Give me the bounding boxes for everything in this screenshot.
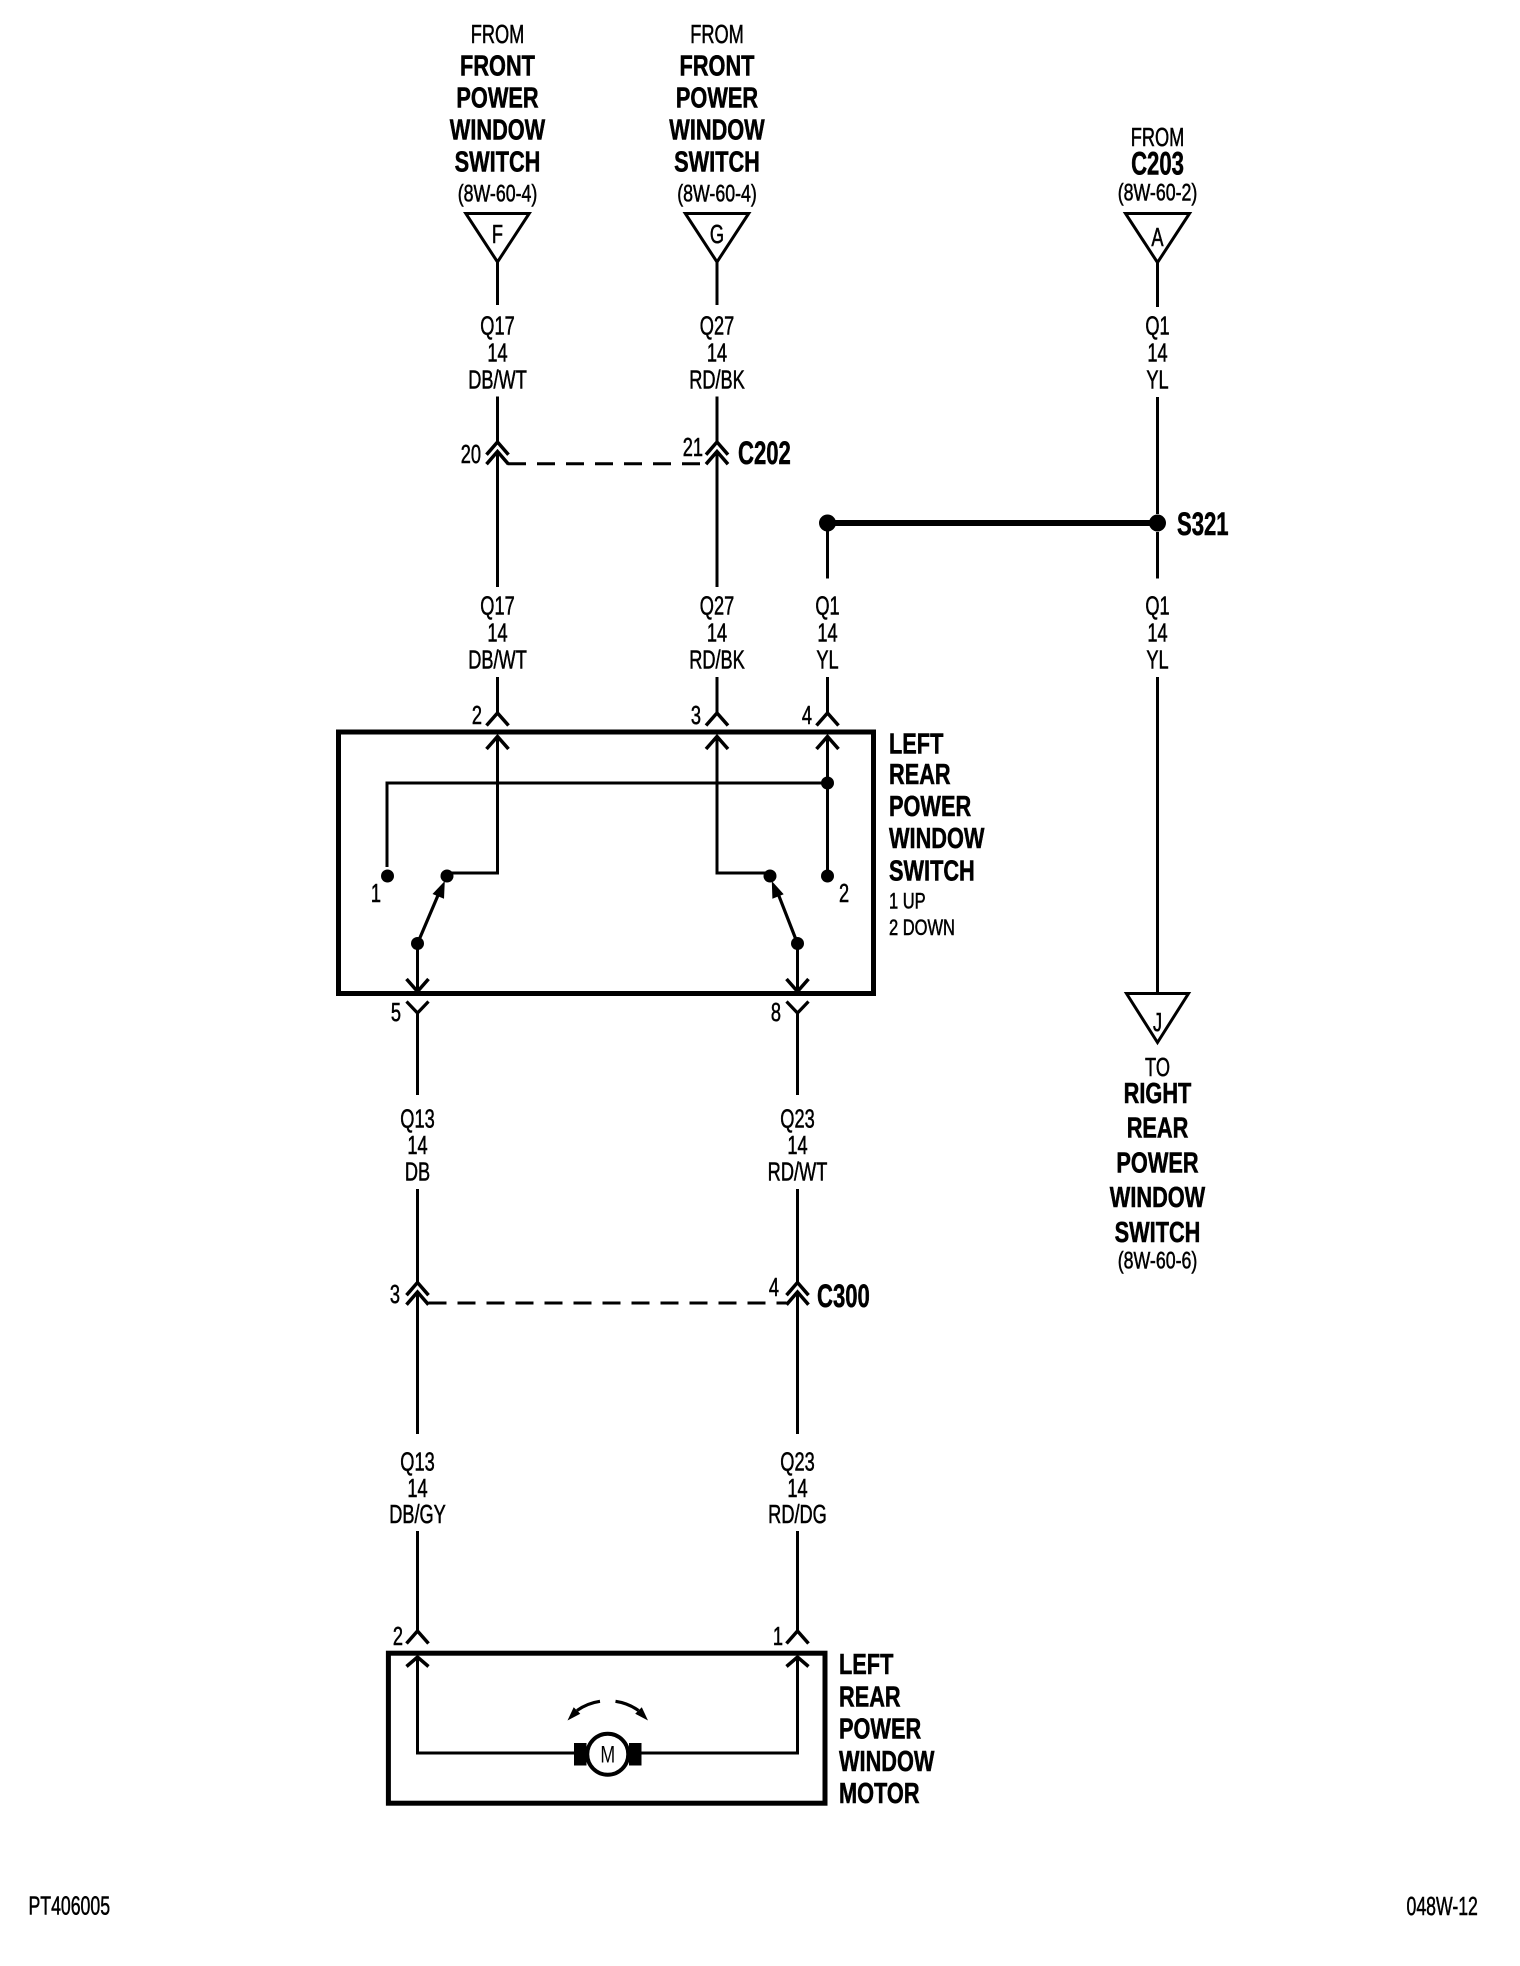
arrowhead at box bottom (pin 5 inside) bbox=[407, 979, 429, 992]
svg-text:J: J bbox=[1153, 1008, 1162, 1037]
svg-text:14: 14 bbox=[487, 338, 507, 367]
svg-text:SWITCH: SWITCH bbox=[455, 147, 541, 179]
wire label Q1 14 YL (upper right) bbox=[1145, 311, 1169, 394]
connector C300 pin 3 (in-line chevrons) bbox=[390, 1280, 429, 1309]
svg-text:WINDOW: WINDOW bbox=[1110, 1182, 1206, 1214]
svg-text:14: 14 bbox=[787, 1131, 807, 1160]
motor rotation arrow right bbox=[616, 1701, 649, 1720]
svg-text:M: M bbox=[600, 1742, 615, 1768]
switch pin 4 terminal bbox=[802, 701, 839, 749]
svg-text:8: 8 bbox=[771, 998, 781, 1027]
wire: to motor pin 2 bbox=[416, 1531, 419, 1631]
svg-text:DB/WT: DB/WT bbox=[468, 645, 527, 674]
svg-text:14: 14 bbox=[407, 1474, 427, 1503]
svg-text:2: 2 bbox=[839, 879, 849, 908]
svg-text:Q23: Q23 bbox=[780, 1104, 814, 1133]
svg-text:PT406005: PT406005 bbox=[29, 1891, 111, 1920]
connector C300 dashed gang line and label bbox=[429, 1278, 870, 1314]
svg-text:5: 5 bbox=[391, 998, 401, 1027]
svg-text:048W-12: 048W-12 bbox=[1407, 1892, 1478, 1921]
svg-text:RD/WT: RD/WT bbox=[768, 1157, 828, 1186]
svg-text:C203: C203 bbox=[1131, 145, 1184, 181]
svg-text:DB/WT: DB/WT bbox=[468, 365, 527, 394]
wire label Q17 14 DB/WT (upper) bbox=[468, 311, 527, 394]
svg-text:POWER: POWER bbox=[839, 1714, 921, 1746]
svg-text:(8W-60-4): (8W-60-4) bbox=[458, 181, 538, 207]
svg-text:Q1: Q1 bbox=[815, 591, 839, 620]
svg-text:POWER: POWER bbox=[1116, 1148, 1198, 1180]
svg-text:Q13: Q13 bbox=[400, 1104, 434, 1133]
motor pin 2 terminal bbox=[393, 1622, 429, 1667]
svg-text:SWITCH: SWITCH bbox=[889, 855, 975, 887]
svg-text:2: 2 bbox=[393, 1622, 403, 1651]
wire: pin 4 into switch bbox=[826, 737, 829, 874]
wire: G triangle to Q27 label bbox=[716, 262, 719, 305]
wire label Q13 14 DB bbox=[400, 1104, 434, 1186]
wire: F triangle to Q17 label bbox=[496, 262, 499, 305]
svg-text:14: 14 bbox=[787, 1474, 807, 1503]
svg-text:1: 1 bbox=[371, 879, 381, 908]
wire: to C300 pin 4 bbox=[796, 1189, 799, 1282]
connector C202 pin 21 (in-line chevrons) bbox=[683, 433, 728, 464]
svg-text:RD/BK: RD/BK bbox=[689, 365, 745, 394]
svg-text:14: 14 bbox=[407, 1131, 427, 1160]
svg-text:POWER: POWER bbox=[676, 83, 758, 115]
svg-text:FROM: FROM bbox=[690, 20, 744, 49]
svg-text:G: G bbox=[710, 220, 724, 249]
svg-text:DB/GY: DB/GY bbox=[389, 1500, 446, 1529]
wire: S321 to Q1 label (lower) bbox=[1156, 532, 1159, 579]
switch pin 5 terminal (Y) and label bbox=[391, 998, 429, 1027]
connector C202 dashed gang line and label bbox=[508, 435, 791, 471]
motor M1 (left rear power window motor) bbox=[574, 1734, 642, 1775]
svg-text:2 DOWN: 2 DOWN bbox=[889, 916, 955, 941]
svg-text:14: 14 bbox=[707, 618, 727, 647]
footer sheet code PT406005 bbox=[29, 1891, 111, 1920]
svg-text:F: F bbox=[492, 220, 503, 249]
switch arm right (pole 8) with arrow bbox=[772, 881, 804, 950]
svg-text:LEFT: LEFT bbox=[839, 1649, 894, 1681]
svg-text:FRONT: FRONT bbox=[680, 51, 755, 83]
wire: Q27 label to C202 pin 21 bbox=[716, 397, 719, 443]
node label: FROM FRONT POWER WINDOW SWITCH (8W-60-4) (right) bbox=[669, 20, 765, 207]
node label: TO RIGHT REAR POWER WINDOW SWITCH (8W-60-6) bbox=[1110, 1053, 1206, 1274]
left rear power window motor box bbox=[388, 1653, 825, 1803]
switch pin 2 terminal bbox=[472, 701, 509, 749]
wire: motor pin 1 lead bbox=[642, 1657, 798, 1753]
svg-text:14: 14 bbox=[1147, 618, 1167, 647]
svg-text:21: 21 bbox=[683, 433, 703, 462]
connector C300 pin 4 (in-line chevrons) bbox=[769, 1273, 809, 1305]
svg-text:Q27: Q27 bbox=[700, 591, 734, 620]
wire: pin 2 into switch (down then left) bbox=[447, 737, 498, 874]
svg-text:Q13: Q13 bbox=[400, 1447, 434, 1476]
svg-text:20: 20 bbox=[461, 440, 481, 469]
motor rotation arrow left bbox=[568, 1701, 601, 1720]
svg-text:C300: C300 bbox=[817, 1278, 870, 1314]
switch arm left (pole 5) with arrow bbox=[411, 881, 445, 950]
wire: C300 pin 4 down bbox=[796, 1293, 799, 1434]
connector C202 pin 20 (in-line chevrons) bbox=[461, 440, 509, 469]
splice bus wire S321 bbox=[828, 520, 1158, 526]
wire: to switch pin 3 bbox=[716, 677, 719, 713]
svg-text:POWER: POWER bbox=[889, 791, 971, 823]
wire label Q13 14 DB/GY bbox=[389, 1447, 446, 1528]
svg-text:RIGHT: RIGHT bbox=[1124, 1078, 1192, 1110]
wire: Q1 label to splice S321 bbox=[1156, 397, 1159, 514]
component label: LEFT REAR POWER WINDOW SWITCH / 1 UP 2 DOWN bbox=[889, 728, 985, 940]
wire: to motor pin 1 bbox=[796, 1531, 799, 1631]
wire: C300 pin 3 down bbox=[416, 1293, 419, 1434]
svg-text:WINDOW: WINDOW bbox=[889, 823, 985, 855]
splice S321 left junction dot bbox=[819, 515, 836, 532]
component label: LEFT REAR POWER WINDOW MOTOR bbox=[839, 1649, 935, 1810]
svg-text:Q17: Q17 bbox=[480, 591, 514, 620]
wire label Q27 14 RD/BK (upper) bbox=[689, 311, 745, 394]
svg-text:A: A bbox=[1151, 223, 1163, 252]
connector A (off-page triangle) bbox=[1126, 214, 1190, 263]
connector J (off-page triangle) bbox=[1127, 994, 1189, 1043]
svg-text:14: 14 bbox=[817, 618, 837, 647]
svg-text:C202: C202 bbox=[738, 435, 791, 471]
svg-text:REAR: REAR bbox=[889, 759, 951, 791]
wire: pin 5 down bbox=[416, 1013, 419, 1095]
switch contact dot (up contact, left) bbox=[441, 870, 454, 883]
svg-text:(8W-60-4): (8W-60-4) bbox=[677, 181, 757, 207]
junction dot on pin 4 branch bbox=[821, 777, 834, 790]
wire: pin 3 into switch (down then right) bbox=[717, 737, 770, 874]
wire: to switch pin 4 bbox=[826, 677, 829, 713]
switch contact dot 1 and label bbox=[371, 870, 394, 908]
svg-text:YL: YL bbox=[1146, 365, 1168, 394]
wire: left pole down to box edge bbox=[416, 944, 419, 991]
connector G (off-page triangle) bbox=[685, 214, 748, 263]
svg-text:REAR: REAR bbox=[839, 1681, 901, 1713]
svg-text:YL: YL bbox=[816, 645, 838, 674]
footer sheet code 048W-12 bbox=[1407, 1892, 1478, 1921]
svg-text:Q23: Q23 bbox=[780, 1447, 814, 1476]
wire: down to connector J bbox=[1156, 677, 1159, 994]
node label: FROM C203 (8W-60-2) bbox=[1118, 123, 1198, 206]
svg-text:FROM: FROM bbox=[471, 20, 525, 49]
wire: pin 8 down bbox=[796, 1013, 799, 1095]
node label: FROM FRONT POWER WINDOW SWITCH (8W-60-4) (left) bbox=[450, 20, 546, 207]
svg-text:(8W-60-2): (8W-60-2) bbox=[1118, 180, 1198, 206]
wire: right pole down to box edge bbox=[796, 944, 799, 991]
switch contact dot 2 and label bbox=[821, 870, 849, 908]
wire label Q1 14 YL (lower right) bbox=[1145, 591, 1169, 674]
svg-text:FRONT: FRONT bbox=[460, 51, 535, 83]
svg-text:3: 3 bbox=[390, 1280, 400, 1309]
wire: splice to Q1 label bbox=[826, 531, 829, 579]
wire label Q1 14 YL (branch) bbox=[815, 591, 839, 674]
wire label Q23 14 RD/DG bbox=[768, 1447, 827, 1528]
switch contact dot (up contact, right) bbox=[764, 870, 777, 883]
wire: C202 pin 20 down bbox=[496, 453, 499, 587]
wire: internal bus from node 1 to pin 4 branch bbox=[387, 783, 828, 867]
wire: to switch pin 2 bbox=[496, 677, 499, 713]
svg-text:2: 2 bbox=[472, 701, 482, 730]
svg-text:SWITCH: SWITCH bbox=[1115, 1217, 1201, 1249]
svg-text:REAR: REAR bbox=[1127, 1113, 1189, 1145]
svg-text:(8W-60-6): (8W-60-6) bbox=[1118, 1248, 1198, 1274]
svg-text:4: 4 bbox=[802, 701, 812, 730]
svg-text:YL: YL bbox=[1146, 645, 1168, 674]
svg-text:14: 14 bbox=[1147, 338, 1167, 367]
svg-text:WINDOW: WINDOW bbox=[839, 1746, 935, 1778]
wire: motor pin 2 lead bbox=[418, 1657, 575, 1753]
wire: Q17 label to C202 pin 20 bbox=[496, 397, 499, 443]
svg-text:MOTOR: MOTOR bbox=[839, 1778, 920, 1810]
wire label Q23 14 RD/WT bbox=[768, 1104, 828, 1186]
svg-text:4: 4 bbox=[769, 1273, 779, 1302]
svg-text:S321: S321 bbox=[1177, 506, 1229, 542]
svg-text:WINDOW: WINDOW bbox=[669, 115, 765, 147]
svg-text:1 UP: 1 UP bbox=[889, 889, 926, 914]
arrowhead at box bottom (pin 8 inside) bbox=[787, 979, 809, 992]
wire: to C300 pin 3 bbox=[416, 1189, 419, 1282]
splice S321 junction dot and label bbox=[1149, 506, 1229, 542]
wire: C202 pin 21 down bbox=[716, 453, 719, 587]
svg-text:Q27: Q27 bbox=[700, 311, 734, 340]
svg-text:14: 14 bbox=[707, 338, 727, 367]
svg-text:POWER: POWER bbox=[456, 83, 538, 115]
svg-text:Q1: Q1 bbox=[1145, 591, 1169, 620]
svg-text:LEFT: LEFT bbox=[889, 728, 944, 760]
svg-text:RD/DG: RD/DG bbox=[768, 1500, 827, 1529]
wire label Q17 14 DB/WT (lower) bbox=[468, 591, 527, 674]
motor pin 1 terminal bbox=[773, 1622, 809, 1667]
svg-text:WINDOW: WINDOW bbox=[450, 115, 546, 147]
connector F (off-page triangle) bbox=[466, 214, 529, 263]
svg-text:Q17: Q17 bbox=[480, 311, 514, 340]
svg-text:Q1: Q1 bbox=[1145, 311, 1169, 340]
switch pin 8 terminal (Y) and label bbox=[771, 998, 809, 1027]
svg-text:DB: DB bbox=[405, 1157, 430, 1186]
left rear power window switch box bbox=[339, 732, 874, 994]
svg-text:3: 3 bbox=[691, 701, 701, 730]
svg-text:SWITCH: SWITCH bbox=[674, 147, 760, 179]
svg-text:1: 1 bbox=[773, 1622, 783, 1651]
wire: A triangle to Q1 label bbox=[1156, 263, 1159, 308]
svg-text:14: 14 bbox=[487, 618, 507, 647]
svg-text:RD/BK: RD/BK bbox=[689, 645, 745, 674]
switch pin 3 terminal bbox=[691, 701, 728, 749]
wire label Q27 14 RD/BK (lower) bbox=[689, 591, 745, 674]
